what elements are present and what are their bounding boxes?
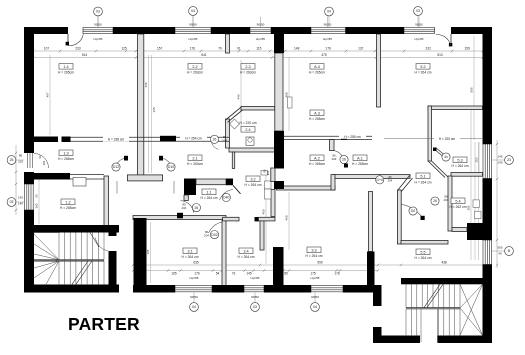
svg-text:H = 220 cm: H = 220 cm [240, 121, 257, 125]
door arc left entrance [34, 154, 49, 169]
svg-text:D12: D12 [113, 165, 119, 169]
svg-text:4x: 4x [444, 155, 448, 159]
grid bubble right B [505, 247, 514, 256]
door bubble 26 [210, 135, 218, 143]
top dimension line row 1 [33, 50, 483, 52]
interior dim line room 3.1 [150, 222, 152, 283]
partition wall A.4/5.2 [377, 34, 381, 107]
svg-text:1.3: 1.3 [63, 151, 68, 155]
svg-text:165: 165 [152, 107, 156, 112]
door top-right entrance leaf [450, 34, 452, 47]
svg-text:Hp=85: Hp=85 [256, 37, 265, 41]
interior dim line room 5.2 [473, 36, 475, 140]
svg-text:2.4: 2.4 [245, 128, 250, 132]
left staircase winder fan upper [34, 233, 59, 260]
lobby door arc [95, 238, 108, 252]
svg-text:79: 79 [218, 46, 222, 50]
svg-text:54: 54 [216, 272, 220, 276]
door post vestibule east [159, 156, 163, 161]
svg-text:91: 91 [237, 46, 241, 50]
svg-text:Hp=85: Hp=85 [251, 276, 260, 280]
svg-text:178: 178 [334, 272, 340, 276]
svg-text:565: 565 [497, 246, 502, 250]
svg-text:H = 238 cm: H = 238 cm [108, 137, 125, 141]
svg-text:107: 107 [44, 46, 50, 50]
bath 5.x block wall [467, 223, 492, 240]
right staircase direction slash [424, 284, 440, 307]
bath 2.4 top wall [241, 107, 275, 111]
corridor east wall A (5.x) [333, 175, 410, 179]
room label 3.3 [307, 247, 321, 253]
door arc corridor 26a [212, 142, 219, 150]
window left W9 [24, 184, 26, 210]
door arc top-right entrance [436, 34, 451, 45]
svg-text:438: 438 [441, 261, 447, 265]
door arc bath 5.4 [402, 205, 423, 218]
stair lobby bottom wall [24, 285, 119, 293]
bottom dimension detail line [133, 270, 378, 272]
corridor 1.1 pier east [226, 179, 233, 186]
svg-text:159: 159 [465, 46, 471, 50]
svg-text:04: 04 [191, 9, 195, 13]
door bubble D12 [112, 163, 120, 171]
right staircase treads lower [406, 309, 460, 336]
ceiling text H=220 [434, 136, 460, 141]
svg-text:59: 59 [35, 194, 39, 198]
svg-text:3.4: 3.4 [243, 249, 248, 253]
outer wall top T5 [346, 27, 405, 34]
svg-text:86: 86 [19, 154, 23, 158]
svg-text:26: 26 [195, 206, 199, 210]
svg-text:26: 26 [342, 158, 346, 162]
svg-text:H = 265cm: H = 265cm [309, 162, 325, 166]
left staircase direction slash [72, 261, 88, 284]
left staircase treads upper [59, 233, 104, 260]
outer wall bottom B4 [343, 285, 379, 293]
grid bubble bottom 04 [190, 303, 199, 312]
interior dim line room 1.2 [38, 178, 40, 224]
svg-text:H = 263cm: H = 263cm [240, 70, 256, 74]
svg-text:446: 446 [144, 82, 148, 87]
door leaf room 5.3 [434, 149, 446, 159]
svg-text:5.5: 5.5 [420, 250, 425, 254]
outer wall left L1 [24, 27, 34, 153]
vestibule door frame lines [116, 181, 118, 194]
door arc D12 [114, 158, 127, 170]
svg-text:H = 264 cm: H = 264 cm [245, 183, 262, 187]
left staircase cut mark [90, 233, 99, 248]
corridor wall pier west2 [62, 137, 71, 143]
wc sink [261, 171, 268, 176]
svg-text:505: 505 [470, 87, 474, 92]
svg-text:H = 265cm: H = 265cm [309, 70, 325, 74]
outer wall right R2 [483, 179, 493, 231]
svg-text:26: 26 [433, 199, 437, 203]
room label A.2 [310, 155, 324, 161]
bath 5.4 fixtures [473, 200, 479, 208]
room label 5.2 [416, 64, 430, 70]
svg-text:204: 204 [444, 198, 449, 202]
svg-text:145: 145 [18, 196, 23, 200]
svg-text:475: 475 [321, 53, 327, 57]
corridor 1.1 wall gray part [196, 179, 226, 185]
room label 3.1 [183, 248, 197, 254]
rooms A.2 bottom wall [277, 186, 336, 190]
door left entrance frame [27, 153, 29, 169]
svg-text:125: 125 [121, 46, 127, 50]
svg-text:145: 145 [246, 272, 252, 276]
door bubble D+0 [376, 176, 384, 184]
svg-text:H = 265cm: H = 265cm [58, 70, 74, 74]
svg-text:176: 176 [194, 272, 200, 276]
door bubble D10 [167, 163, 175, 171]
partition wall bath 2.4 [226, 119, 230, 148]
corridor diagonal west [398, 175, 411, 191]
right staircase landing line [406, 307, 460, 309]
bath 2.4 shower [230, 119, 240, 129]
svg-text:467: 467 [46, 92, 50, 97]
outer wall top T6 [451, 27, 492, 34]
svg-text:204: 204 [182, 206, 187, 210]
grid bubble bottom 03 [251, 303, 260, 312]
partition wall 2.2/2.3 upper [226, 34, 230, 53]
corridor 1.1 wall lower stub [184, 195, 188, 201]
room label 2.1 [188, 155, 202, 161]
svg-text:590: 590 [317, 261, 323, 265]
window top W2 [175, 27, 211, 29]
outer wall top T2 [113, 27, 175, 34]
spine wall bottom [273, 247, 284, 292]
wall above 1.2 thin part [70, 174, 104, 176]
corridor bottom wall left wing [133, 216, 226, 220]
vestibule wall 1.1 top [127, 175, 162, 181]
svg-text:2.2: 2.2 [192, 65, 197, 69]
corridor west vertical wall 5.x [397, 190, 401, 244]
room label 5.4 [451, 198, 465, 204]
svg-text:04: 04 [313, 305, 317, 309]
svg-text:514: 514 [82, 53, 88, 57]
svg-text:H = 220 cm: H = 220 cm [439, 137, 456, 141]
bath 5.4 top wall [451, 173, 483, 177]
grid bubble right 23 [505, 156, 514, 165]
spine wall middle upper [274, 131, 284, 169]
spine wall top stub [274, 27, 284, 53]
corridor 1.1 wall black L [184, 179, 196, 196]
svg-text:H = 264 cm: H = 264 cm [415, 256, 432, 260]
room label 1.1 [202, 189, 216, 195]
outer wall right R3 [483, 265, 493, 344]
room label 2.3 [241, 64, 255, 70]
svg-text:2.3: 2.3 [245, 65, 250, 69]
svg-text:2.1: 2.1 [192, 156, 197, 160]
bath 5.4 left wall [448, 176, 452, 231]
door bubble D0 [409, 207, 417, 215]
svg-text:Hp=85: Hp=85 [311, 276, 320, 280]
stair lobby right wall lower [109, 251, 117, 292]
svg-text:176: 176 [190, 46, 196, 50]
interior dim line right rooms [470, 110, 472, 260]
room label 2.2 [188, 64, 202, 70]
svg-text:A.2: A.2 [314, 156, 320, 160]
spine door frame 3.2 [271, 168, 275, 182]
wall above room 1.2 [24, 173, 70, 180]
door bubble 26 [192, 204, 200, 212]
svg-text:5.2: 5.2 [420, 65, 425, 69]
bath 2.4 chamfer [226, 107, 242, 120]
svg-text:A.4: A.4 [314, 65, 320, 69]
svg-text:03: 03 [10, 200, 14, 204]
corridor bottom wall mid segment [223, 217, 240, 221]
door post corridor 26b [177, 213, 183, 219]
svg-text:H = 264 cm: H = 264 cm [452, 164, 469, 168]
ceiling line H=238 [103, 136, 129, 141]
right stair bottom wall east [438, 336, 493, 344]
svg-text:H = 263cm: H = 263cm [187, 70, 203, 74]
door top-left entrance leaf [67, 34, 69, 46]
corridor 5.x diagonal wall [428, 161, 445, 178]
window bottom W8 [311, 285, 343, 287]
svg-text:5.1: 5.1 [420, 174, 425, 178]
svg-text:25: 25 [10, 158, 14, 162]
interior dim line room 3.2 [265, 170, 267, 264]
svg-text:460: 460 [285, 215, 289, 220]
corridor wall 3.4/3.2 [260, 220, 264, 250]
svg-text:1.2: 1.2 [65, 200, 70, 204]
corridor wall pier center [160, 136, 176, 142]
svg-text:5.4: 5.4 [455, 199, 460, 203]
interior dim line room A.3 [288, 57, 290, 131]
door arc top-left entrance [68, 34, 83, 45]
svg-text:165: 165 [171, 272, 177, 276]
right stair top wall [401, 278, 483, 284]
room label 2.4 [241, 127, 255, 133]
bath 2.4 bottom wall [229, 148, 275, 152]
outer wall top T4 [271, 27, 311, 34]
svg-text:H = 264 cm: H = 264 cm [238, 255, 255, 259]
grid bubble top 04 [189, 7, 198, 16]
wall connector A.2/A.1 [331, 175, 335, 190]
right staircase walkway [420, 309, 422, 342]
corridor bottom wall east segment [259, 217, 276, 221]
room label A.3 [310, 110, 324, 116]
svg-text:175: 175 [310, 272, 316, 276]
svg-text:03: 03 [253, 305, 257, 309]
svg-text:641: 641 [201, 53, 207, 57]
room label 1.4 [59, 64, 73, 70]
door leaf 1.1 [233, 185, 241, 194]
bath 5.4 bottom stub [452, 228, 467, 232]
svg-text:160: 160 [35, 203, 39, 208]
left staircase winder fan lower [34, 261, 59, 284]
right staircase treads upper [406, 284, 460, 307]
svg-text:85: 85 [284, 272, 288, 276]
kitchen units room 3.3 [265, 181, 272, 189]
connector wall vertical lower [373, 327, 382, 336]
svg-text:40: 40 [498, 252, 502, 256]
door bubble 26 [431, 197, 439, 205]
grid bubble top 03b [414, 7, 423, 16]
outer wall bottom B3 [264, 285, 311, 293]
window top W3 [250, 27, 271, 29]
interior dim line room 5.3 [478, 142, 480, 176]
room label 5.5 [416, 249, 430, 255]
right dimension line [496, 140, 498, 268]
svg-text:176: 176 [325, 46, 331, 50]
door bubble D02 [210, 231, 218, 239]
svg-text:H = 264 cm: H = 264 cm [182, 255, 199, 259]
grid bubble bottom 04b [311, 303, 320, 312]
room label A.4 [310, 64, 324, 70]
svg-text:D02: D02 [211, 233, 217, 237]
outer wall right R1 [483, 27, 493, 144]
svg-text:165: 165 [146, 249, 150, 254]
interior dim line room 2.3 [240, 60, 242, 131]
door post A.2/A.1 [344, 164, 348, 168]
window bottom W6 [175, 285, 212, 287]
svg-text:H = 254 cm: H = 254 cm [185, 136, 202, 140]
left dimension line [15, 145, 17, 215]
svg-text:446: 446 [237, 94, 241, 99]
room label 1.3 [59, 150, 73, 156]
svg-text:D+0: D+0 [377, 178, 383, 182]
top dimension line row 2 (totals) [33, 57, 483, 59]
svg-text:460: 460 [262, 209, 266, 214]
svg-text:04: 04 [192, 305, 196, 309]
corridor wall left wing (H=254) [70, 136, 229, 138]
room label 3.4 [239, 248, 253, 254]
door arc D02 [209, 222, 223, 233]
door bubble 4x [442, 153, 450, 161]
svg-text:H = 264 cm: H = 264 cm [306, 254, 323, 258]
door arc D40 [220, 190, 234, 201]
corridor wall pier east [341, 135, 347, 140]
svg-text:Hp=85: Hp=85 [190, 276, 199, 280]
building edge wall left-bottom [134, 218, 147, 292]
svg-text:232: 232 [426, 46, 432, 50]
svg-text:D0: D0 [411, 209, 415, 213]
grid bubble top 03 [94, 7, 103, 16]
svg-text:206: 206 [467, 205, 471, 210]
svg-text:H = 263cm: H = 263cm [187, 162, 203, 166]
ceiling text H=255 [339, 134, 366, 139]
svg-text:D10: D10 [168, 165, 174, 169]
svg-text:26: 26 [213, 138, 217, 142]
door arc A.2/A.1 [333, 151, 346, 164]
room label 5.1 [416, 173, 430, 179]
svg-text:Hp=85: Hp=85 [94, 37, 103, 41]
svg-text:458: 458 [285, 92, 289, 97]
door frame spine [288, 97, 293, 108]
wc toilet [246, 137, 254, 145]
corridor 5.x top wall [428, 106, 483, 110]
svg-text:140: 140 [497, 161, 502, 165]
svg-text:H = 264 cm: H = 264 cm [415, 181, 432, 185]
corridor wall pier west [33, 137, 58, 143]
svg-text:D40: D40 [223, 196, 229, 200]
svg-text:A.1: A.1 [357, 156, 363, 160]
svg-text:H = 265cm: H = 265cm [58, 157, 74, 161]
svg-text:H = 262 cm: H = 262 cm [450, 205, 467, 209]
svg-text:H = 265cm: H = 265cm [352, 162, 368, 166]
right staircase landing diagonals [460, 284, 483, 335]
ceiling height line right (H=220) [384, 137, 482, 139]
right stair bottom wall west [373, 336, 420, 344]
door arc D10 [161, 158, 174, 170]
corridor wall right wing (H=255) [284, 135, 372, 137]
svg-text:157: 157 [157, 46, 163, 50]
svg-text:137: 137 [358, 46, 364, 50]
partition wall 3.1/3.4 [222, 220, 226, 286]
partition stub A.2/A.1 [330, 140, 335, 151]
grid bubble left 25 [7, 156, 16, 165]
corridor wall 3.2 left [271, 190, 275, 217]
ceiling text H=254 [180, 135, 207, 140]
grid bubble left 03 [7, 198, 16, 207]
outer wall left L3 [24, 210, 34, 292]
svg-text:1.4: 1.4 [63, 65, 68, 69]
svg-text:73: 73 [232, 272, 236, 276]
closet in 1.2 [73, 178, 86, 187]
interior dim line room 1.4 [49, 55, 51, 135]
svg-text:03: 03 [416, 9, 420, 13]
svg-text:3.2: 3.2 [250, 177, 255, 181]
svg-text:PARTER: PARTER [68, 314, 140, 334]
partition wall 3.3/5.x black lower [367, 252, 375, 286]
svg-text:233: 233 [75, 46, 81, 50]
outer wall bottom B2 [212, 285, 244, 293]
svg-text:23: 23 [507, 158, 511, 162]
wc room left wall [232, 152, 234, 168]
svg-text:A.3: A.3 [314, 111, 320, 115]
svg-text:148: 148 [294, 46, 300, 50]
svg-text:635: 635 [193, 261, 199, 265]
svg-text:115: 115 [256, 46, 261, 50]
svg-text:04: 04 [327, 10, 331, 14]
svg-text:H = 264 cm: H = 264 cm [415, 70, 432, 74]
door post corridor mid [255, 217, 259, 221]
svg-text:204: 204 [42, 160, 46, 165]
door post bath 5.4 [421, 216, 425, 220]
outer wall bottom B1 [133, 285, 175, 293]
svg-text:H = 265cm: H = 265cm [60, 206, 76, 210]
interior dim line rooms 2.2 [148, 55, 150, 173]
svg-text:Hp=85: Hp=85 [415, 37, 424, 41]
room label 1.2 [61, 199, 75, 205]
stair lobby top wall [24, 225, 119, 233]
svg-text:145: 145 [497, 155, 502, 159]
room label A.1 [353, 155, 367, 161]
window right W11 [482, 240, 484, 265]
outer wall top T3 [211, 27, 250, 34]
grid bubble top 04b [325, 7, 334, 16]
svg-text:204: 204 [388, 178, 393, 182]
spine wall middle lower [274, 181, 284, 189]
svg-text:3.1: 3.1 [187, 249, 192, 253]
svg-text:5.3: 5.3 [457, 158, 462, 162]
svg-text:204: 204 [266, 170, 270, 175]
svg-text:3.3: 3.3 [311, 248, 316, 252]
window bottom W7 [244, 285, 264, 287]
door arc corridor 26b [181, 201, 194, 213]
door post vestibule west [124, 156, 128, 161]
svg-text:Hp=85: Hp=85 [189, 37, 198, 41]
spine wall middle section [275, 53, 283, 131]
room 5.5 top wall [401, 241, 448, 245]
partition wall rooms 1.x/2.x [138, 34, 144, 176]
bottom dimension totals line [133, 264, 488, 266]
partition wall 3.3/5.x [369, 192, 373, 252]
window top W4 [311, 27, 346, 29]
